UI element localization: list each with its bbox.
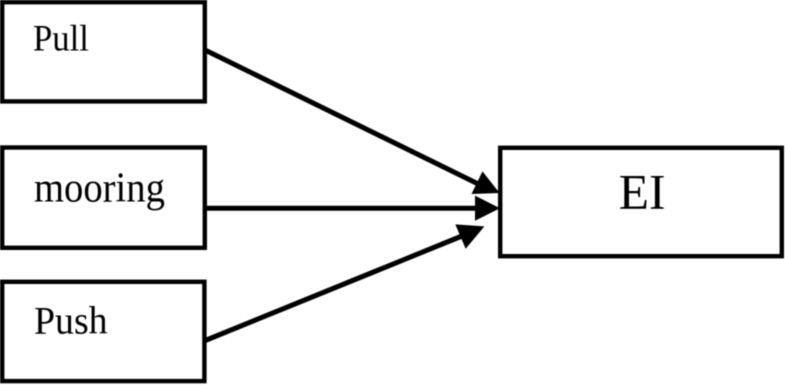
svg-text:Push: Push [34, 300, 108, 343]
svg-text:EI: EI [619, 164, 666, 219]
svg-text:mooring: mooring [34, 164, 165, 211]
svg-text:Pull: Pull [33, 18, 89, 59]
